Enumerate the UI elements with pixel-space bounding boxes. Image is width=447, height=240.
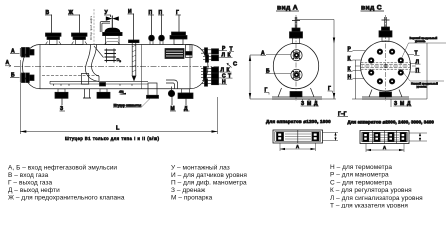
svg-text:Для аппаратов ⌀1200, 1600: Для аппаратов ⌀1200, 1600: [266, 119, 331, 124]
svg-text:А: А: [296, 144, 299, 149]
svg-text:Н: Н: [222, 79, 226, 85]
nozzle B (gas inlet, top): [46, 15, 62, 45]
nozzle A (left, emulsion inlet): [20, 48, 34, 58]
right head nozzle R: [201, 48, 219, 55]
diff. manometer nozzles P P (two small valves on top): [149, 15, 155, 45]
section marks G-G (view A): [264, 88, 269, 95]
manhole U with davit: [100, 16, 122, 45]
svg-text:4%: 4%: [119, 90, 124, 94]
view A nozzle A (upper face flange): [291, 50, 302, 61]
dimension L: [20, 60, 217, 134]
svg-text:Отбор проб нефти: Отбор проб нефти: [89, 15, 93, 40]
view A height dimension: [297, 20, 335, 100]
weir plate right of mist box: [186, 45, 193, 58]
legend column 1: [8, 164, 125, 202]
label N: [218, 79, 227, 85]
view C ring of 8 nozzles: [369, 49, 404, 84]
label Zh: [68, 10, 81, 16]
plate 2 right dimension: [409, 133, 427, 141]
label U: [104, 10, 111, 17]
view A left dimension: [249, 55, 262, 99]
label D: [184, 106, 190, 112]
internal liquid level dashed line: [42, 75, 100, 77]
mist extractor box inside near gas outlet: [165, 49, 184, 59]
labels Z M D under view A: [301, 99, 320, 107]
label A: [10, 49, 20, 55]
svg-text:У – монтажный лаз: У – монтажный лаз: [171, 164, 230, 172]
view A centerline: [295, 15, 297, 101]
view C left vertical line: [355, 60, 357, 99]
label A (view A): [261, 51, 291, 57]
base plate 1 (d1200,1600): [273, 130, 323, 143]
svg-text:Штуцер снимается: Штуцер снимается: [114, 104, 142, 108]
label B: [45, 10, 52, 16]
centerline: [14, 66, 219, 68]
view C upper level dashed line: [361, 62, 410, 64]
nozzle Zh (safety valve, top): [72, 15, 88, 45]
label Z: [60, 106, 66, 112]
section title G-G: [338, 112, 349, 118]
callout upper limit level: [401, 36, 446, 60]
internal drain pipe collar: [81, 74, 88, 85]
svg-text:Т: Т: [415, 51, 418, 57]
labels P P: [148, 10, 154, 16]
right labels T L P (view C): [408, 51, 420, 57]
view C lower level dashed line: [361, 67, 410, 69]
view C saddle support: [362, 90, 409, 100]
view C centerline vertical: [385, 15, 387, 101]
svg-text:А: А: [6, 60, 10, 66]
callout lower limit level: [402, 71, 444, 89]
view C center mark: [384, 64, 387, 67]
inlet swan-neck deflector inside: [86, 45, 104, 82]
svg-text:И – для датчиков уровня: И – для датчиков уровня: [171, 172, 247, 179]
right head nozzle N: [202, 79, 219, 86]
view A nozzle B (lower face flange): [291, 69, 302, 80]
bottom stub (removable): [147, 83, 159, 98]
svg-text:В – вход газа: В – вход газа: [8, 172, 49, 179]
title vid A: [276, 5, 299, 12]
label B (view A): [266, 69, 291, 75]
svg-text:Для аппаратов ⌀2000, 2400, 30: Для аппаратов ⌀2000, 2400, 3000, 3400: [348, 120, 435, 125]
svg-text:М – пропарка: М – пропарка: [171, 195, 213, 202]
bottom nozzle D (oil outlet): [178, 89, 193, 105]
label M: [170, 106, 176, 112]
svg-text:Dв: Dв: [117, 57, 122, 63]
svg-text:П: П: [416, 68, 420, 74]
view A direction arrow: [5, 60, 11, 67]
label G: [176, 10, 182, 16]
svg-text:А: А: [383, 145, 386, 150]
svg-text:вид А: вид А: [277, 5, 298, 12]
labels Z M D under view C: [391, 99, 412, 107]
base plate 2 (d2000-3400): [360, 131, 409, 144]
right head nozzle L K (upper): [203, 55, 219, 62]
slope mark 4%: [119, 90, 126, 95]
svg-text:Н: Н: [348, 75, 352, 81]
internal oil outlet elbow: [166, 80, 178, 89]
svg-text:С – для термометра: С – для термометра: [330, 179, 392, 186]
svg-text:Л – для сигнализатора уровня: Л – для сигнализатора уровня: [330, 195, 423, 202]
svg-text:Ж – для предохранительного кла: Ж – для предохранительного клапана: [8, 195, 125, 202]
nozzle B2 (left lower, emulsion inlet): [20, 73, 34, 83]
view C arrow mark: [227, 62, 237, 68]
svg-text:Н – для термометра: Н – для термометра: [330, 164, 392, 171]
svg-text:вид С: вид С: [361, 5, 382, 12]
bottom nozzle Z (drain): [55, 89, 68, 105]
svg-text:Л: Л: [222, 53, 226, 59]
bottom valve M (steam-out): [168, 87, 174, 106]
bottom open pipe: [83, 89, 91, 98]
view A baseline: [250, 98, 336, 100]
svg-text:Л: Л: [416, 59, 420, 65]
nozzle G (gas outlet, top): [170, 15, 187, 45]
label I: [128, 9, 135, 15]
title vid C: [361, 5, 385, 12]
svg-text:З – дренаж: З – дренаж: [171, 187, 206, 194]
svg-text:Т: Т: [228, 73, 231, 79]
view C centerline horizontal: [355, 65, 416, 67]
right head nozzle S T: [201, 73, 219, 80]
svg-text:Р – для манометра: Р – для манометра: [330, 172, 389, 179]
labels S T: [218, 73, 233, 79]
svg-text:Б: Б: [266, 69, 270, 75]
view A saddle support: [272, 88, 322, 99]
labels L K (upper): [218, 53, 233, 59]
internal tray (double line with legs): [50, 81, 148, 86]
internal fitting on collector: [100, 83, 106, 87]
right head nozzle L K (lower): [201, 67, 219, 74]
view C top nozzle stack: [379, 17, 392, 42]
level gauge nozzle I (tall thin instrument): [129, 14, 140, 81]
svg-text:А, Б – вход нефтегазовой эмуль: А, Б – вход нефтегазовой эмульсии: [8, 164, 117, 172]
svg-text:Г – выход газа: Г – выход газа: [8, 180, 53, 187]
internal ladder under manhole: [105, 49, 117, 63]
svg-text:Д – выход нефти: Д – выход нефти: [8, 187, 60, 194]
svg-text:Т – для указателя уровня: Т – для указателя уровня: [330, 203, 408, 209]
svg-text:уровень: уровень: [417, 85, 428, 89]
legend column 3: [330, 164, 423, 210]
svg-text:С: С: [222, 73, 226, 79]
plate 1 right dimension: [323, 133, 339, 141]
svg-text:П – для диф. манометра: П – для диф. манометра: [171, 180, 247, 187]
svg-text:Штуцер В1 только для типа I и: Штуцер В1 только для типа I и II (в/ш): [65, 136, 160, 141]
plate 2 bottom dimension A: [366, 144, 404, 153]
view C baseline: [352, 98, 427, 100]
view C circle (right end): [361, 41, 411, 91]
symmetry dashed line with tiny note: [89, 9, 94, 45]
vessel shell (main side view): [23, 45, 209, 89]
svg-text:К – для регулятора уровня: К – для регулятора уровня: [330, 187, 412, 194]
view A circle (vessel end): [273, 43, 318, 88]
legend column 2: [171, 164, 247, 202]
svg-text:С: С: [233, 62, 237, 68]
callout: stub removable: [113, 99, 150, 108]
labels L K (lower): [218, 67, 232, 73]
left labels R K K N (view C): [347, 47, 365, 53]
weld seam: [141, 45, 143, 89]
view A top nozzle stack: [290, 17, 303, 44]
bottom flange (unlabeled): [97, 89, 110, 99]
svg-text:уровень: уровень: [415, 39, 426, 43]
svg-text:А: А: [261, 51, 265, 57]
right side labels R T: [218, 46, 234, 53]
view C right vertical line: [426, 43, 428, 99]
plate 1 bottom dimension A: [280, 143, 316, 151]
label B2: [10, 73, 20, 79]
